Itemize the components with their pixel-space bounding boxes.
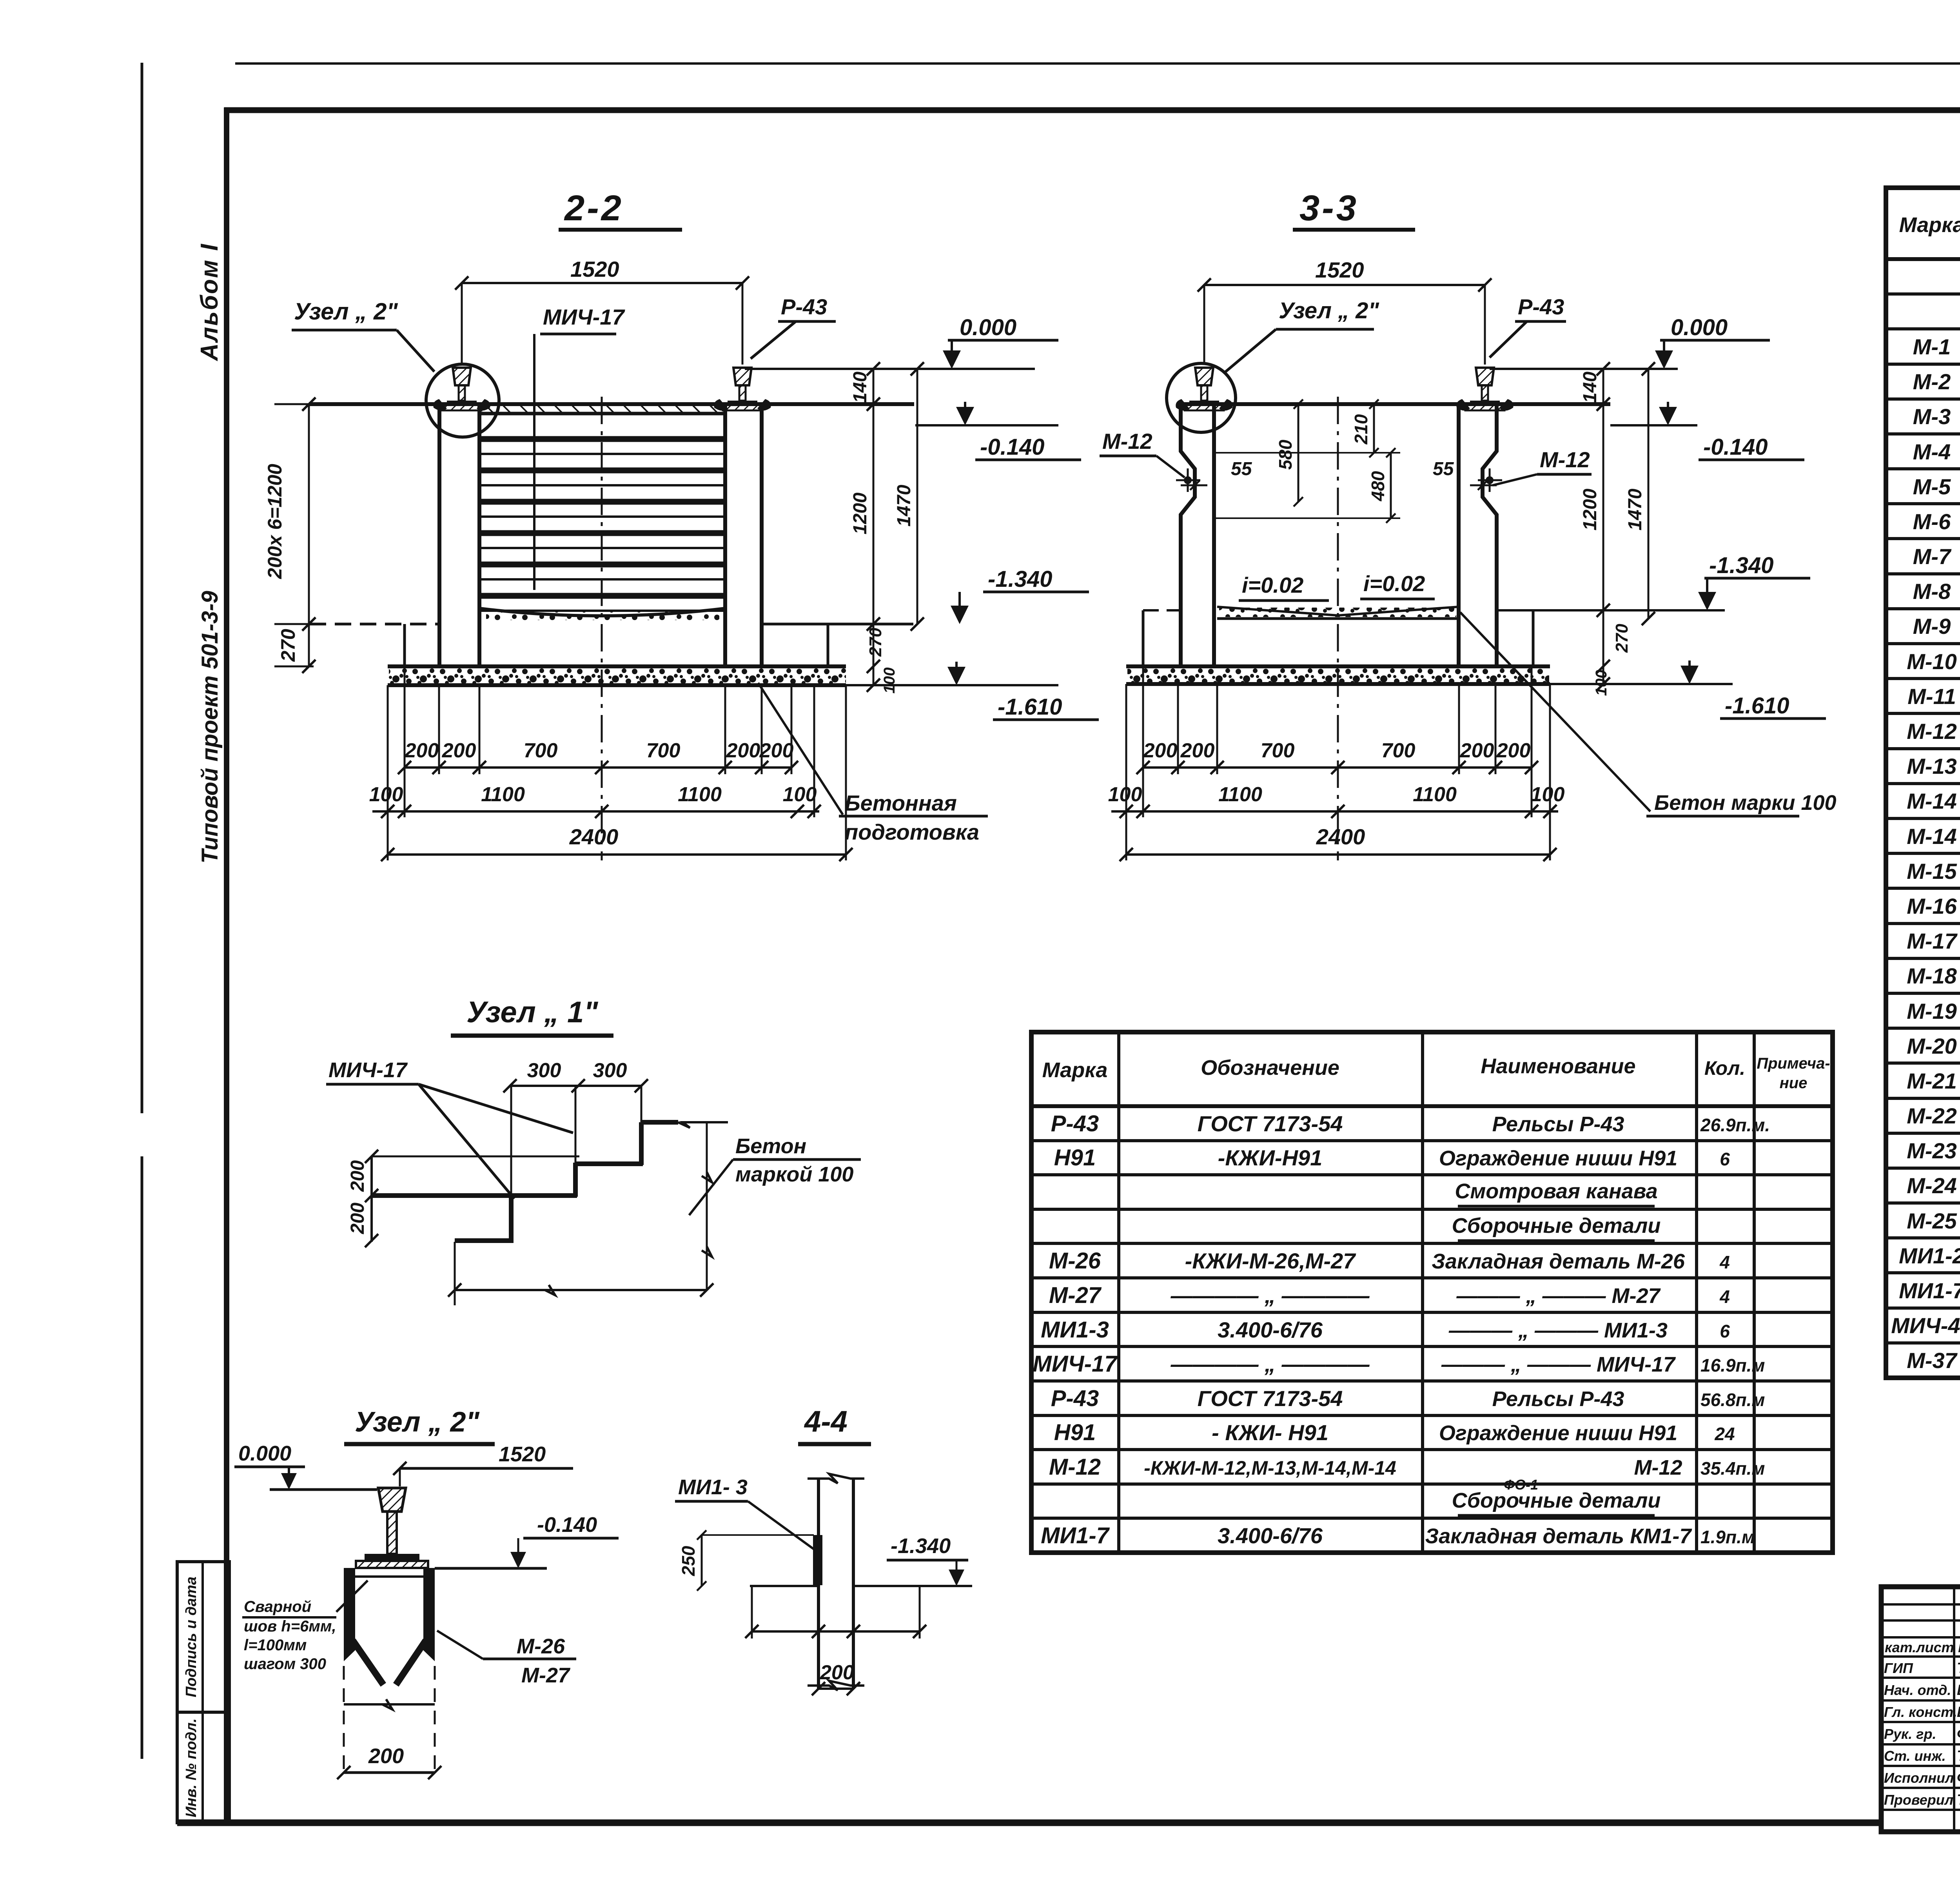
svg-text:200: 200: [347, 1203, 368, 1234]
svg-text:0.000: 0.000: [960, 315, 1016, 340]
svg-text:Обозначение: Обозначение: [1201, 1056, 1339, 1080]
svg-text:-0.140: -0.140: [980, 434, 1044, 460]
svg-text:700: 700: [1261, 739, 1295, 762]
svg-text:Марка: Марка: [1899, 213, 1960, 237]
svg-text:Сборочные детали: Сборочные детали: [1452, 1214, 1661, 1238]
svg-text:100: 100: [369, 783, 403, 806]
svg-text:1.9п.м: 1.9п.м: [1700, 1527, 1755, 1547]
svg-text:6: 6: [1720, 1149, 1730, 1169]
svg-text:-1.610: -1.610: [998, 694, 1062, 720]
svg-text:Нач. отд.: Нач. отд.: [1884, 1682, 1951, 1698]
M-12 anchor dots: [1184, 476, 1192, 484]
main frame top heavy: [224, 107, 1960, 113]
svg-text:1100: 1100: [481, 783, 525, 806]
uzel 2 base plate: [356, 1561, 428, 1568]
title block left grid verticals: [1953, 1587, 1955, 1832]
svg-text:М-18: М-18: [1907, 964, 1957, 988]
3-3 right wall inner: [1457, 404, 1461, 665]
svg-text:МИЧ-17: МИЧ-17: [328, 1058, 408, 1082]
svg-text:480: 480: [1368, 471, 1388, 501]
svg-text:1470: 1470: [894, 484, 915, 526]
2-2 left wall: [437, 404, 441, 665]
rail web: [459, 385, 465, 401]
3-3 elevation -0.140: [1610, 424, 1697, 426]
leader MICh-17 vertical: [533, 334, 535, 590]
svg-text:М-14: М-14: [1907, 824, 1957, 849]
3-3 label beton marki 100: [1460, 612, 1650, 811]
svg-text:МИ1-2: МИ1-2: [1899, 1243, 1960, 1268]
svg-text:56.8п.м: 56.8п.м: [1700, 1390, 1765, 1410]
4-4 break marks: [808, 1474, 864, 1483]
rail clamps: [1176, 399, 1189, 411]
svg-text:200: 200: [405, 739, 439, 762]
svg-text:М-12: М-12: [1049, 1454, 1101, 1480]
svg-text:Бетон: Бетон: [735, 1134, 806, 1158]
svg-text:2400: 2400: [569, 824, 619, 849]
svg-text:100: 100: [881, 668, 898, 694]
svg-text:Узел „ 1": Узел „ 1": [466, 996, 598, 1029]
rail base plate: [1465, 404, 1504, 410]
section 2-2 dim 1520 top: [462, 282, 742, 284]
svg-text:Р-43: Р-43: [1051, 1386, 1099, 1411]
rail P-43 head: [1195, 368, 1213, 385]
rail P-43 head: [733, 368, 751, 385]
svg-text:Ограждение ниши Н91: Ограждение ниши Н91: [1439, 1421, 1677, 1445]
svg-text:Исполнил: Исполнил: [1884, 1770, 1954, 1786]
2-2 elevation 0.000: [745, 368, 1035, 370]
svg-text:Рук. гр.: Рук. гр.: [1884, 1726, 1936, 1742]
2-2 elevation -0.140: [915, 424, 1058, 426]
svg-text:Р-43: Р-43: [1518, 294, 1564, 319]
svg-text:МИЧ-17: МИЧ-17: [1033, 1351, 1118, 1377]
middle table row lines: [1031, 1139, 1833, 1142]
svg-text:М-9: М-9: [1913, 614, 1951, 639]
2-2 elevation -1.610: [846, 684, 1058, 686]
svg-text:Н91: Н91: [1054, 1420, 1096, 1445]
sheet outer trim line top: [235, 62, 1960, 65]
svg-text:Закладная деталь М-26: Закладная деталь М-26: [1432, 1250, 1685, 1273]
svg-text:ние: ние: [1780, 1074, 1808, 1092]
svg-text:М-11: М-11: [1907, 684, 1956, 709]
svg-text:М-10: М-10: [1907, 649, 1957, 674]
3-3 foundation edges: [1142, 610, 1145, 666]
2-2 pit floor curve: [479, 608, 725, 616]
svg-text:М-12: М-12: [1540, 447, 1590, 472]
3-3 ledge right: [1497, 609, 1609, 611]
svg-text:кат.лист: кат.лист: [1885, 1639, 1954, 1655]
svg-text:Рельсы Р-43: Рельсы Р-43: [1492, 1387, 1624, 1411]
middle table column lines: [1117, 1032, 1120, 1553]
rail foot: [728, 401, 757, 405]
svg-text:100: 100: [1108, 783, 1142, 806]
2-2 ground top line: [309, 402, 914, 406]
4-4 level line -1.340: [750, 1585, 818, 1587]
svg-text:200: 200: [1180, 739, 1215, 762]
uzel 2 mid break dim: [344, 1703, 435, 1706]
uzel 2 rail foot: [365, 1554, 419, 1561]
4-4 MI1-3 plate: [813, 1535, 822, 1585]
svg-text:МИ1- 3: МИ1- 3: [678, 1475, 748, 1499]
svg-text:26.9п.м.: 26.9п.м.: [1700, 1115, 1770, 1135]
svg-text:1520: 1520: [570, 257, 619, 281]
3-3 dim 1520: [1204, 284, 1485, 286]
svg-text:200: 200: [1143, 739, 1178, 762]
svg-text:М-13: М-13: [1907, 754, 1957, 778]
svg-text:М-8: М-8: [1913, 579, 1951, 604]
rail clamps: [714, 399, 728, 411]
svg-text:200: 200: [442, 739, 476, 762]
svg-text:Фомичев: Фомичев: [1957, 1770, 1960, 1786]
svg-text:i=0.02: i=0.02: [1363, 571, 1425, 596]
svg-text:Проверил: Проверил: [1884, 1792, 1953, 1808]
svg-text:200: 200: [347, 1160, 368, 1192]
svg-text:Гл. конст.: Гл. конст.: [1884, 1704, 1957, 1720]
svg-text:Наименование: Наименование: [1481, 1054, 1635, 1078]
svg-text:Узел „ 2": Узел „ 2": [355, 1406, 480, 1438]
svg-text:Р-43: Р-43: [1051, 1111, 1099, 1136]
3-3 elevation -1.610: [1550, 683, 1733, 685]
svg-text:М-5: М-5: [1913, 474, 1951, 499]
title block outer border: [1881, 1587, 1960, 1832]
svg-text:1200: 1200: [850, 492, 871, 534]
main frame left heavy: [224, 107, 229, 1825]
svg-text:М-2: М-2: [1913, 369, 1951, 394]
svg-text:200: 200: [726, 739, 760, 762]
2-2 concrete prep band: [388, 664, 846, 668]
svg-text:- КЖИ- Н91: - КЖИ- Н91: [1212, 1420, 1328, 1445]
3-3 ledge dashed left: [1143, 609, 1181, 611]
svg-text:М-25: М-25: [1907, 1208, 1957, 1233]
svg-text:М-12: М-12: [1634, 1456, 1682, 1479]
svg-text:300: 300: [527, 1059, 561, 1082]
svg-text:ГОСТ 7173-54: ГОСТ 7173-54: [1198, 1386, 1343, 1411]
detail circle uzel 2 (3-3): [1167, 363, 1236, 432]
svg-text:Закладная деталь КМ1-7: Закладная деталь КМ1-7: [1425, 1524, 1693, 1548]
svg-text:М-17: М-17: [1907, 929, 1958, 953]
svg-text:МИ1-3: МИ1-3: [1041, 1317, 1109, 1343]
right table header row line: [1886, 257, 1960, 261]
rail web: [1201, 385, 1207, 401]
3-3 floor slope lines: [1217, 607, 1338, 615]
uzel 2 level line: [270, 1488, 377, 1491]
svg-text:——— „ ——— МИ1-3: ——— „ ——— МИ1-3: [1448, 1319, 1668, 1342]
svg-text:270: 270: [866, 628, 885, 657]
uzel 2 rail web: [387, 1512, 397, 1554]
svg-text:Инв. № подл.: Инв. № подл.: [183, 1718, 200, 1818]
svg-text:Примеча-: Примеча-: [1757, 1055, 1830, 1072]
rail web: [1482, 385, 1488, 401]
svg-text:маркой 100: маркой 100: [735, 1163, 853, 1186]
svg-text:Р-43: Р-43: [781, 294, 827, 319]
svg-text:6: 6: [1720, 1321, 1730, 1341]
title block left grid horizontals: [1881, 1603, 1960, 1606]
svg-text:140: 140: [1580, 372, 1601, 403]
svg-text:200: 200: [1496, 739, 1531, 762]
svg-text:М-6: М-6: [1913, 509, 1951, 534]
svg-text:200: 200: [820, 1661, 854, 1684]
svg-text:——— „ ——— МИЧ-17: ——— „ ——— МИЧ-17: [1441, 1353, 1676, 1376]
svg-text:300: 300: [593, 1059, 627, 1082]
svg-text:Бетонная: Бетонная: [845, 791, 957, 815]
svg-text:подготовка: подготовка: [845, 820, 979, 844]
3-3 mid vertical dims: [1373, 404, 1375, 453]
3-3 elevation 0.000: [1490, 368, 1678, 370]
svg-text:270: 270: [277, 629, 299, 662]
svg-text:200х 6=1200: 200х 6=1200: [264, 464, 286, 579]
svg-text:3-3: 3-3: [1299, 188, 1359, 228]
uzel 2 channel right wall: [423, 1568, 435, 1661]
sheet left trim line: [141, 63, 143, 1113]
svg-text:Марка: Марка: [1042, 1058, 1108, 1082]
svg-text:0.000: 0.000: [1671, 315, 1728, 340]
uzel 2 anchor legs: [353, 1640, 383, 1685]
svg-text:l=100мм: l=100мм: [244, 1637, 307, 1654]
margin stamp box signature/date: [177, 1562, 229, 1712]
svg-text:-1.340: -1.340: [1709, 553, 1773, 578]
svg-text:——— „ ——— М-27: ——— „ ——— М-27: [1456, 1284, 1661, 1308]
svg-text:Бетон марки 100: Бетон марки 100: [1654, 791, 1837, 815]
svg-text:1200: 1200: [1580, 488, 1601, 530]
svg-text:-0.140: -0.140: [537, 1513, 597, 1537]
right table outer border: [1886, 188, 1960, 1378]
svg-text:Н91: Н91: [1054, 1145, 1096, 1170]
svg-text:М-26: М-26: [1049, 1248, 1101, 1274]
svg-text:Сварной: Сварной: [244, 1598, 311, 1615]
svg-text:М-22: М-22: [1907, 1103, 1957, 1128]
main frame bottom heavy: [177, 1820, 1881, 1826]
2-2 dim chain 100-1100-1100-100: [372, 810, 819, 813]
svg-text:3.400-6/76: 3.400-6/76: [1218, 1523, 1323, 1548]
svg-text:Володарко: Володарко: [1957, 1704, 1960, 1720]
svg-text:270: 270: [1612, 624, 1632, 653]
2-2 label betonnaya podgotovka: [758, 683, 843, 815]
leader to detail circle: [397, 330, 434, 372]
svg-text:210: 210: [1351, 414, 1371, 445]
svg-text:4: 4: [1719, 1287, 1730, 1307]
3-3 dim chain 200-200-700-700-200-200: [1143, 766, 1532, 769]
svg-text:i=0.02: i=0.02: [1242, 573, 1303, 597]
svg-text:Типовой проект 501-3-9: Типовой проект 501-3-9: [197, 591, 223, 864]
3-3 left wall inner: [1212, 404, 1216, 606]
4-4 wall verticals: [817, 1477, 820, 1689]
uzel 1 bottom dim: [454, 1242, 456, 1305]
svg-text:-0.140: -0.140: [1703, 434, 1768, 460]
rail foot: [1189, 401, 1219, 405]
3-3 extension lines below: [1125, 684, 1127, 860]
svg-text:-1.340: -1.340: [988, 566, 1052, 592]
svg-text:———— „ ————: ———— „ ————: [1170, 1352, 1370, 1376]
svg-text:М-21: М-21: [1907, 1069, 1957, 1093]
svg-text:М-3: М-3: [1913, 404, 1951, 429]
3-3 dim 2400: [1126, 853, 1550, 856]
right table row lines: [1886, 292, 1960, 296]
svg-text:1100: 1100: [678, 783, 722, 806]
middle table outer border: [1031, 1032, 1833, 1553]
svg-text:М-15: М-15: [1907, 859, 1957, 884]
svg-text:ГИП: ГИП: [1884, 1660, 1913, 1676]
2-2 centre axis: [601, 397, 603, 860]
svg-text:ФО-1: ФО-1: [1504, 1477, 1538, 1493]
svg-text:Узел „ 2": Узел „ 2": [294, 298, 398, 325]
svg-text:М-27: М-27: [1049, 1283, 1102, 1308]
3-3 left wall outer with niche: [1181, 404, 1195, 665]
uzel 1 extension verticals: [510, 1086, 512, 1196]
3-3 right vertical dims: [1602, 369, 1604, 684]
svg-text:200: 200: [1460, 739, 1494, 762]
svg-text:700: 700: [1381, 739, 1416, 762]
svg-text:Томкин: Томкин: [1957, 1660, 1960, 1677]
svg-text:М-12: М-12: [1907, 719, 1957, 744]
uzel 1 left dim 200/200: [370, 1156, 373, 1242]
rail clamps: [1456, 399, 1470, 411]
2-2 ledge line left dashed: [310, 623, 439, 626]
svg-text:100: 100: [783, 783, 817, 806]
svg-text:55: 55: [1231, 459, 1252, 479]
svg-text:Смотровая канава: Смотровая канава: [1455, 1179, 1657, 1203]
uzel 1 right dim: [706, 1122, 708, 1290]
2-2 dim 2400: [388, 853, 846, 856]
svg-text:-КЖИ-М-26,М-27: -КЖИ-М-26,М-27: [1185, 1248, 1357, 1273]
svg-text:4-4: 4-4: [804, 1405, 848, 1438]
3-3 right wall outer with niche: [1483, 404, 1497, 665]
svg-text:Терентьева: Терентьева: [1957, 1748, 1960, 1764]
svg-text:140: 140: [850, 372, 871, 403]
svg-text:МИЧ-17: МИЧ-17: [543, 305, 625, 329]
svg-text:55: 55: [1433, 459, 1454, 479]
3-3 elevation -1.340: [1497, 609, 1725, 611]
2-2 ledge line right: [762, 623, 913, 626]
uzel 1 leaders: [419, 1084, 573, 1133]
svg-text:МИЧ-46: МИЧ-46: [1891, 1313, 1960, 1338]
3-3 dim chain 100-1100-1100-100: [1111, 810, 1558, 813]
uzel 1 extension horizontals: [373, 1156, 579, 1158]
uzel 2 dashed projections: [343, 1666, 345, 1776]
svg-text:М-37: М-37: [1907, 1348, 1958, 1373]
svg-text:Узел „ 2": Узел „ 2": [1279, 298, 1379, 323]
2-2 stair step lines: [479, 436, 725, 442]
svg-text:шагом 300: шагом 300: [244, 1655, 326, 1673]
svg-text:М-26: М-26: [517, 1635, 565, 1658]
svg-text:700: 700: [524, 739, 558, 762]
svg-text:М-14: М-14: [1907, 789, 1957, 813]
svg-text:Подпись и дата: Подпись и дата: [183, 1577, 200, 1697]
detail circle uzel 2: [426, 364, 499, 437]
svg-text:М-19: М-19: [1907, 999, 1957, 1023]
svg-text:35.4п.м: 35.4п.м: [1700, 1458, 1765, 1479]
svg-text:Альбом I: Альбом I: [196, 243, 223, 362]
uzel 2 channel top inner line: [355, 1575, 423, 1578]
svg-text:100: 100: [1531, 783, 1565, 806]
2-2 foundation edges: [403, 624, 406, 666]
svg-text:-1.610: -1.610: [1725, 693, 1789, 719]
rail P-43 head: [453, 368, 471, 385]
margin stamp box inv number: [177, 1712, 229, 1823]
svg-text:24: 24: [1714, 1424, 1735, 1444]
svg-text:М-16: М-16: [1907, 894, 1957, 918]
svg-text:200: 200: [368, 1744, 404, 1768]
svg-text:16.9п.м: 16.9п.м: [1700, 1355, 1765, 1375]
svg-text:700: 700: [646, 739, 681, 762]
svg-text:1520: 1520: [1315, 258, 1364, 282]
2-2 left vertical dims: [308, 404, 310, 666]
svg-text:Терентьева: Терентьева: [1957, 1792, 1960, 1808]
2-2 dim chain 200-200-700-700-200-200: [405, 766, 791, 769]
svg-text:М-7: М-7: [1913, 544, 1952, 569]
svg-text:580: 580: [1275, 439, 1296, 470]
svg-text:шов h=6мм,: шов h=6мм,: [244, 1618, 336, 1635]
3-3 floor slab bottom: [1217, 617, 1459, 620]
svg-text:———— „ ————: ———— „ ————: [1170, 1283, 1370, 1308]
svg-text:200: 200: [759, 739, 794, 762]
svg-text:-КЖИ-М-12,М-13,М-14,М-14: -КЖИ-М-12,М-13,М-14,М-14: [1144, 1457, 1396, 1479]
svg-text:250: 250: [678, 1546, 699, 1576]
3-3 centre axis: [1337, 397, 1339, 860]
svg-text:-КЖИ-Н91: -КЖИ-Н91: [1218, 1145, 1323, 1170]
middle table header row line: [1031, 1104, 1833, 1108]
rail P-43 head: [1476, 368, 1494, 385]
svg-text:М-12: М-12: [1102, 429, 1152, 454]
svg-text:1520: 1520: [499, 1443, 546, 1466]
4-4 bottom dim line: [751, 1586, 753, 1639]
rail foot: [1470, 401, 1500, 405]
svg-text:Кол.: Кол.: [1704, 1057, 1745, 1079]
svg-text:1470: 1470: [1625, 488, 1646, 530]
svg-text:МИ1-7: МИ1-7: [1041, 1523, 1110, 1548]
svg-text:3.400-6/76: 3.400-6/76: [1218, 1317, 1323, 1342]
svg-text:М-4: М-4: [1913, 439, 1951, 464]
2-2 right vertical dims: [873, 369, 875, 685]
svg-text:0.000: 0.000: [238, 1442, 291, 1465]
svg-text:МИ1-7: МИ1-7: [1899, 1278, 1960, 1303]
uzel 2 rail head: [378, 1488, 406, 1512]
svg-text:М-27: М-27: [521, 1664, 571, 1687]
rail base plate: [442, 404, 481, 410]
4-4 left dim 250: [701, 1535, 703, 1586]
svg-text:Фридланд: Фридланд: [1957, 1726, 1960, 1742]
2-2 right wall: [723, 404, 727, 665]
rail clamps: [433, 399, 447, 411]
rail base plate: [1185, 404, 1224, 410]
3-3 ground top line: [1178, 402, 1610, 406]
svg-text:Сборочные детали: Сборочные детали: [1452, 1489, 1661, 1512]
svg-text:2400: 2400: [1316, 824, 1365, 849]
uzel 2 channel left wall: [344, 1568, 355, 1661]
svg-text:Ст. инж.: Ст. инж.: [1884, 1748, 1946, 1764]
svg-text:М-20: М-20: [1907, 1034, 1957, 1058]
rail web: [739, 385, 746, 401]
svg-text:1100: 1100: [1413, 783, 1457, 806]
svg-text:ГОСТ 7173-54: ГОСТ 7173-54: [1198, 1111, 1343, 1136]
svg-text:Ограждение ниши Н91: Ограждение ниши Н91: [1439, 1147, 1677, 1170]
2-2 extension lines below: [387, 685, 389, 860]
2-2 elevation -1.340: [951, 606, 969, 624]
svg-text:М-23: М-23: [1907, 1138, 1957, 1163]
svg-text:Бродский: Бродский: [1957, 1682, 1960, 1698]
2-2 top slab band between walls: [479, 412, 725, 416]
svg-text:М-24: М-24: [1907, 1173, 1957, 1198]
rail foot: [447, 401, 477, 405]
uzel 1 dim 300 300: [510, 1085, 641, 1087]
uzel 1 step profile: [641, 1120, 678, 1125]
svg-text:1100: 1100: [1218, 783, 1262, 806]
rail base plate: [723, 404, 762, 410]
svg-text:№ докум.: № докум.: [1958, 1639, 1960, 1655]
3-3 concrete prep band: [1126, 664, 1550, 668]
svg-text:М-1: М-1: [1913, 334, 1951, 359]
svg-text:Рельсы Р-43: Рельсы Р-43: [1492, 1112, 1624, 1136]
svg-text:4: 4: [1719, 1252, 1730, 1272]
svg-text:2-2: 2-2: [564, 188, 624, 228]
